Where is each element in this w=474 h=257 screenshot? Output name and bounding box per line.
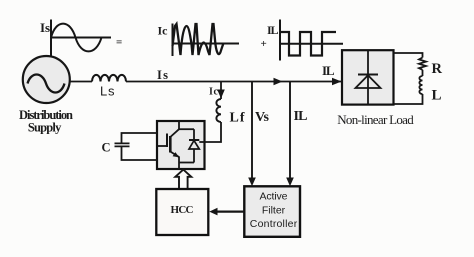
arrowhead bus mid (274, 78, 283, 86)
svg-text:L: L (432, 88, 442, 104)
svg-text:IL: IL (267, 23, 279, 37)
non-linear load box (342, 50, 394, 104)
diode D1 anode lead (193, 149, 195, 163)
wire capacitor top (122, 133, 158, 143)
svg-text:Is: Is (157, 68, 168, 82)
HCC box (156, 189, 208, 235)
inverter box (157, 121, 205, 169)
AC source sine symbol (28, 75, 65, 93)
wire IL sense line (289, 82, 291, 179)
wire Lf to inverter output (199, 122, 221, 142)
node top link to diode (179, 128, 194, 130)
inductor Lf (216, 99, 221, 122)
wire capacitor bottom (122, 147, 158, 160)
wire source to Ls (70, 81, 92, 83)
svg-text:Ic: Ic (209, 87, 219, 98)
wire inverter output inside (199, 141, 204, 143)
svg-text:Lf: Lf (230, 111, 245, 126)
arrowhead AFC to HCC (209, 208, 217, 216)
svg-text:IL: IL (322, 63, 335, 78)
IGBT Q1 emitter arrowhead (173, 152, 180, 157)
diode D1 cathode lead (193, 129, 195, 140)
svg-text:Ic: Ic (158, 24, 169, 38)
waveform Is axes (51, 20, 111, 57)
IGBT Q1 channel bar (169, 136, 172, 153)
arrowhead into non-linear load (332, 78, 342, 86)
waveform Ic harmonic curve (173, 24, 224, 55)
IGBT Q1 gate bar (166, 134, 168, 148)
thyristor triangle (356, 75, 381, 88)
resistor R zigzag (419, 58, 426, 70)
arrowhead Ic down (217, 90, 225, 99)
wire R to L (422, 70, 424, 76)
svg-text:R: R (432, 61, 443, 77)
waveform Ic axes (173, 24, 240, 57)
waveform IL axes (280, 20, 343, 61)
waveform Is sine curve (51, 24, 102, 52)
IGBT Q1 top pin (178, 121, 180, 129)
svg-text:C: C (102, 141, 111, 155)
thyristor in load: vertical lead (367, 51, 369, 105)
wire RL loop bottom (394, 94, 423, 104)
wire Vs sense line (251, 82, 253, 179)
svg-text:Is: Is (40, 20, 50, 35)
AC source circle: Distribution Supply (23, 56, 70, 103)
svg-text:Ls: Ls (100, 84, 115, 99)
diode D1 triangle (189, 141, 199, 150)
wire load to RL loop top (394, 53, 423, 58)
wire inverter bottom link (179, 162, 194, 164)
svg-text:HCC: HCC (171, 204, 194, 216)
inductor L coil (419, 76, 422, 94)
svg-text:+: + (261, 38, 267, 50)
IGBT Q1 bottom pin (178, 157, 180, 170)
arrow AFC to HCC line (218, 211, 245, 213)
svg-text:Filter: Filter (262, 205, 286, 217)
thyristor cathode bar (358, 74, 378, 76)
arrowhead Vs into controller (248, 178, 256, 187)
svg-text:IL: IL (294, 109, 308, 124)
IGBT Q1 gate stub (158, 145, 168, 147)
svg-text:Non-linear Load: Non-linear Load (337, 112, 414, 127)
wire Ic branch vertical (220, 82, 222, 100)
wire main bus (126, 81, 341, 83)
svg-text:Controller: Controller (250, 218, 298, 230)
svg-text:=: = (116, 37, 122, 49)
waveform IL square wave (280, 32, 336, 56)
inductor Ls (92, 75, 126, 82)
IGBT Q1 collector lead (170, 129, 179, 137)
IGBT Q1 emitter lead (170, 152, 179, 158)
svg-text:Vs: Vs (255, 110, 270, 125)
hollow arrow HCC to inverter (175, 170, 191, 189)
arrowhead IL into controller (286, 178, 294, 187)
svg-text:Active: Active (260, 191, 288, 203)
capacitor C plates (115, 143, 130, 146)
Active Filter Controller box (244, 186, 300, 237)
svg-text:Supply: Supply (28, 121, 62, 135)
diode D1 cathode bar (189, 139, 199, 141)
